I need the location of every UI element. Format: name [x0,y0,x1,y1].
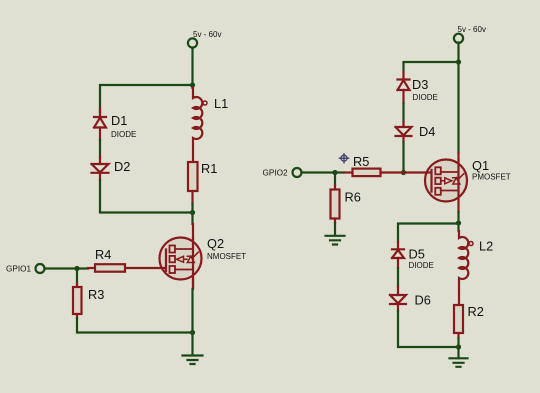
svg-text:GPIO2: GPIO2 [263,169,288,178]
svg-text:L1: L1 [214,96,228,111]
svg-text:Q2: Q2 [207,236,224,251]
svg-text:DIODE: DIODE [111,130,136,139]
svg-text:GPIO1: GPIO1 [6,265,31,274]
svg-text:R5: R5 [353,154,369,169]
svg-text:D3: D3 [412,77,428,92]
svg-text:DIODE: DIODE [413,93,438,102]
svg-text:R1: R1 [201,161,217,176]
svg-text:NMOSFET: NMOSFET [207,252,246,261]
svg-text:D4: D4 [419,124,435,139]
svg-text:L2: L2 [479,239,493,254]
svg-text:5v - 60v: 5v - 60v [193,30,221,39]
svg-text:R2: R2 [468,304,484,319]
svg-text:Q1: Q1 [472,158,489,173]
svg-text:D6: D6 [415,293,431,308]
svg-text:5v - 60v: 5v - 60v [458,25,486,34]
svg-text:PMOSFET: PMOSFET [472,173,511,182]
svg-text:R6: R6 [345,190,361,205]
svg-text:R4: R4 [95,247,111,262]
svg-text:DIODE: DIODE [409,261,434,270]
svg-text:R3: R3 [88,287,104,302]
svg-text:D2: D2 [114,159,130,174]
svg-text:D1: D1 [111,113,127,128]
svg-text:D5: D5 [409,247,425,262]
